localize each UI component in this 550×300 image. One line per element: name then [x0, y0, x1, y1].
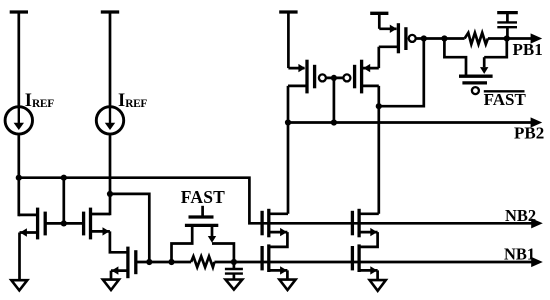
node dot rail/IREF1 — [16, 175, 22, 181]
current source I_REF 1 — [5, 107, 32, 134]
node dot PB2 start — [285, 119, 291, 125]
wire M6 source arrow to M7 drain — [359, 228, 378, 247]
node dot gates T1-T2 — [61, 220, 67, 226]
wire T2 source with arrow, to T3 drain — [91, 227, 128, 252]
M_FAST channel bar — [185, 224, 218, 227]
ground G2 — [103, 280, 119, 290]
node dot IREF2 branch — [107, 191, 113, 197]
transistor M5 (nmos mirror left lower) — [262, 244, 269, 272]
node dot diode node — [376, 103, 382, 109]
wire T3 source with arrow — [111, 266, 128, 279]
arrowhead PB1 — [531, 33, 543, 43]
node dot gates/PB2 — [331, 119, 337, 125]
M_FAST gate stub — [201, 206, 204, 217]
transistor T2 (nmos, faces right) — [84, 208, 91, 240]
wire M6 drain stub — [359, 212, 379, 215]
wire I_REF2 down to T2 drain — [109, 134, 112, 215]
node dot bridge right / cap — [231, 259, 237, 265]
wire I_REF1 to rail and T1 drain — [17, 134, 20, 216]
wire diode connection gate-drain — [379, 39, 424, 107]
wire M9 source with arrow — [362, 47, 379, 73]
wire T1 source with arrow — [20, 228, 38, 280]
supply T-bar VDD4 — [370, 13, 388, 28]
svg-text:NB1: NB1 — [504, 244, 535, 263]
transistor T3 (nmos, faces left) — [128, 247, 136, 279]
wire M8 drain — [288, 85, 307, 88]
ground G3 — [226, 280, 243, 290]
wire M10 source with arrow — [379, 25, 396, 33]
node dot PB1/diode — [421, 35, 427, 41]
M_FAST source arrow — [208, 227, 216, 243]
wire M8 source with arrow — [288, 64, 305, 72]
transistor M11 (pmos FAST-bar switch) left step — [444, 39, 466, 77]
transistor M4 (nmos mirror left upper) — [262, 209, 269, 238]
wire M8 drain down to M4 (PB2 column) — [287, 86, 290, 214]
svg-text:PB2: PB2 — [514, 123, 544, 142]
resistor R2 — [465, 33, 488, 44]
wire M5 source arrow to ground — [269, 266, 288, 280]
ground G1 — [11, 280, 27, 290]
svg-text:NB2: NB2 — [505, 206, 536, 225]
node dot bridge left — [168, 259, 174, 265]
M11 gate bubble — [472, 87, 479, 94]
svg-text:FAST: FAST — [484, 90, 527, 109]
label FAST-bar overline — [484, 90, 525, 92]
wire T1 drain stub — [19, 214, 38, 217]
M11 gate bar — [462, 81, 487, 84]
transistor M7 (nmos mirror right lower) — [352, 244, 359, 272]
transistor M10 (pmos diode, top right) — [398, 23, 415, 53]
arrowhead NB2 — [531, 218, 543, 228]
wire M4 drain stub — [269, 212, 288, 215]
node dot bridge right / cap top — [504, 35, 510, 41]
node dot pmos gates — [331, 75, 337, 81]
M11 source arrow — [480, 57, 488, 74]
wire M9 drain down (diode column) — [362, 86, 379, 214]
supply T-bar VDD2 — [101, 12, 119, 107]
wire M10 drain — [379, 45, 399, 48]
supply T-bar VDD3 — [279, 12, 297, 68]
M_FAST gate bar — [189, 215, 214, 218]
wire M7 source arrow to ground — [359, 266, 378, 280]
node dot rail/gate branch — [61, 175, 67, 181]
svg-text:FAST: FAST — [181, 187, 225, 207]
transistor T1 (nmos, faces left) — [38, 208, 46, 240]
wire gates down to PB2 — [333, 78, 336, 123]
transistor M_FAST (nmos switch) left step — [172, 227, 193, 262]
resistor R1 — [191, 256, 214, 267]
wire gate branch down — [62, 178, 65, 224]
ground G4 — [279, 280, 295, 290]
node dot bridge left top — [441, 35, 447, 41]
M11 channel bar — [459, 75, 493, 78]
transistor M9 (pmos right of pair) — [343, 60, 361, 94]
M11 right step — [484, 39, 507, 58]
arrowhead PB2 — [531, 117, 543, 127]
wire M4 source arrow to M5 drain — [269, 228, 288, 247]
supply T-bar VDD1 — [10, 12, 28, 107]
wire gate T1 to gate T2 — [45, 222, 83, 225]
svg-text:PB1: PB1 — [513, 40, 543, 59]
arrowhead NB1 — [531, 257, 543, 267]
node dot NB1/branch — [146, 259, 152, 265]
wire branch IREF2 to NB1 — [110, 194, 149, 262]
transistor M6 (nmos mirror right upper) — [352, 209, 359, 238]
ground G5 — [370, 280, 386, 291]
wire PB2 line — [288, 121, 531, 124]
wire PB1 line — [417, 37, 532, 40]
transistor M_FAST right step — [212, 244, 234, 263]
wire NB1 line — [136, 261, 532, 264]
current source I_REF 2 — [96, 107, 123, 134]
transistor M8 (pmos left of pair) — [307, 60, 326, 94]
wire rail NB2: horizontal rail, corner down, NB2 line — [18, 178, 532, 224]
wire PMOS gates — [327, 77, 343, 80]
capacitor C2 to supply — [497, 13, 518, 39]
wire T2 drain stub — [91, 213, 111, 216]
capacitor C1 — [225, 262, 243, 280]
